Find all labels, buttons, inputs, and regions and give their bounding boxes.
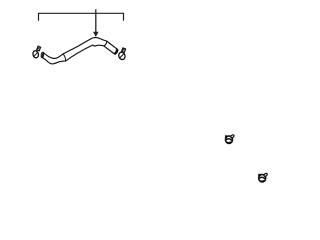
hose seam mark left <box>63 54 66 61</box>
hose seam mark right <box>104 41 107 46</box>
clamp right <box>118 48 126 60</box>
callout bracket <box>39 13 124 20</box>
small clamp icon 2 <box>258 173 268 182</box>
clamp left <box>32 46 40 58</box>
small clamp icon 1 <box>225 134 235 143</box>
hose body <box>42 38 117 64</box>
leader arrow <box>93 9 99 37</box>
hose left end cap <box>41 52 44 58</box>
hose right end cap <box>115 49 118 54</box>
